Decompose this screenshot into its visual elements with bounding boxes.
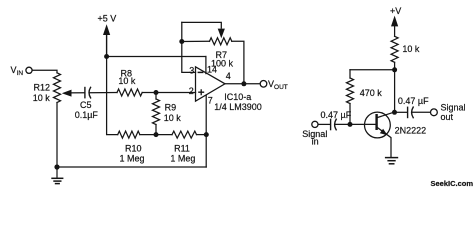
wire: R7 left lead (182, 40, 210, 42)
terminal circle V_OUT (260, 81, 267, 88)
transistor Q1 2N2222 circle (365, 112, 391, 138)
power +5V arrow (103, 24, 110, 35)
wire: R9 top lead (155, 93, 157, 100)
wire: 470k top lead (349, 70, 351, 78)
wire: 470k top rail (350, 69, 395, 71)
op-amp U1 triangle IC10-a (196, 67, 226, 101)
svg-text:VIN: VIN (11, 65, 24, 77)
resistor R7 body (trimmer) (210, 38, 232, 45)
svg-text:out: out (441, 112, 454, 122)
wire: R11 to pin7 node (197, 134, 207, 136)
capacitor 0.47uF output curved plate (412, 107, 414, 118)
wire: R7 right lead down to output (232, 41, 244, 84)
potentiometer R12 body (54, 73, 61, 103)
wire: collector supply vertical (394, 70, 396, 113)
svg-text:1 Meg: 1 Meg (120, 153, 145, 163)
capacitor 0.47uF input left plate (330, 119, 332, 129)
wire: C5 to R8 (89, 92, 117, 94)
junction node: R11/pin7 (204, 132, 209, 137)
svg-text:2N2222: 2N2222 (395, 126, 427, 136)
wire: R10 to node (140, 134, 172, 136)
R12 wiper arrow head (62, 90, 72, 97)
svg-text:+5 V: +5 V (98, 13, 117, 23)
R7 trimmer arrow head (218, 29, 225, 39)
junction node: R7 left / pin3 feedback (179, 39, 184, 44)
svg-text:R11: R11 (174, 143, 190, 153)
svg-text:1 Meg: 1 Meg (170, 153, 195, 163)
svg-text:7: 7 (208, 95, 213, 105)
svg-text:IC10-a: IC10-a (224, 92, 251, 102)
terminal circle Signal in (312, 121, 318, 127)
svg-text:R9: R9 (165, 103, 177, 113)
capacitor C5 left plate (84, 88, 86, 98)
resistor R10 body (118, 131, 140, 138)
power +V arrow right (391, 16, 398, 27)
svg-text:R12: R12 (34, 83, 51, 93)
wire: signal in terminal to cap (318, 123, 330, 125)
wire: collector node to output cap (395, 111, 408, 113)
junction node: collector/output cap (392, 110, 397, 115)
transistor emitter arrow head (380, 129, 388, 136)
op-amp minus sign (198, 71, 204, 73)
ground symbol left (56, 167, 58, 178)
wire: R8 to op-amp pin 2 (142, 92, 195, 94)
wire: input cap to base (335, 123, 376, 125)
wire: +V arrow shaft right circuit (394, 26, 396, 36)
svg-text:in: in (312, 137, 319, 147)
ground symbol right (emitter) (385, 157, 398, 159)
wire: R7 wiper loop top (182, 22, 222, 28)
wire: feedback vertical to pin 3 (182, 22, 196, 72)
junction node: +5V rail (104, 54, 109, 59)
svg-text:C5: C5 (80, 100, 92, 110)
junction node: 10k/470k right (392, 67, 397, 72)
svg-text:R10: R10 (125, 143, 142, 153)
junction node: output/R7 (241, 81, 246, 86)
junction node: 470k/base (348, 122, 353, 127)
junction node: R8/R9/pin2 (154, 90, 159, 95)
transistor emitter lead (377, 127, 391, 157)
svg-text:Signal: Signal (441, 103, 466, 113)
junction node: ground rail left (54, 164, 59, 169)
terminal circle V_IN (26, 67, 32, 73)
svg-text:1/4 LM3900: 1/4 LM3900 (214, 102, 262, 112)
resistor R9 body (153, 99, 160, 125)
svg-text:10 k: 10 k (402, 44, 420, 54)
wire: op-amp pin 7 to ground rail (205, 95, 207, 167)
svg-text:470 k: 470 k (360, 88, 383, 98)
transistor base bar (375, 115, 377, 129)
svg-text:0.1µF: 0.1µF (75, 110, 99, 120)
capacitor C5 right curved plate (89, 87, 91, 98)
resistor 10k right body (391, 36, 398, 62)
wire: 10k bottom lead to node (394, 62, 396, 70)
capacitor 0.47uF input curved plate (335, 119, 337, 130)
wire: +5V rail left lead to R10 (107, 57, 118, 135)
svg-text:+V: +V (390, 6, 401, 16)
svg-text:0.47 µF: 0.47 µF (398, 96, 429, 106)
svg-text:14: 14 (207, 64, 217, 74)
resistor R11 body (172, 131, 197, 138)
svg-text:10 k: 10 k (33, 93, 51, 103)
terminal circle Signal out (431, 109, 438, 116)
wire: V_IN to R12 top (32, 70, 57, 73)
wire: R9 bottom lead (155, 125, 157, 135)
svg-text:10 k: 10 k (164, 113, 182, 123)
resistor 470k body (347, 78, 354, 104)
wire: +5V horizontal rail (107, 56, 206, 58)
svg-text:SeekIC.com: SeekIC.com (431, 179, 474, 188)
op-amp plus sign (198, 89, 204, 95)
svg-text:10 k: 10 k (118, 76, 136, 86)
junction node: R9/R10/R11 (154, 132, 159, 137)
wire: R12 wiper to C5 (68, 92, 84, 94)
transistor collector lead (377, 112, 394, 118)
wire: output cap to signal out terminal (412, 111, 430, 113)
wire: R12 bottom to ground junction (56, 103, 58, 168)
wire: 470k bottom lead to base node (349, 104, 351, 125)
svg-text:0.47 µF: 0.47 µF (321, 110, 352, 120)
capacitor 0.47uF output left plate (407, 107, 409, 117)
resistor R8 body (117, 89, 142, 96)
svg-text:3: 3 (189, 66, 194, 76)
wire: pin 14 supply lead (205, 57, 207, 74)
svg-text:VOUT: VOUT (268, 79, 288, 91)
svg-text:4: 4 (226, 71, 231, 81)
wire: bottom ground rail (57, 166, 206, 168)
wire: op-amp output to VOUT terminal (225, 83, 260, 85)
svg-text:2: 2 (189, 86, 194, 96)
